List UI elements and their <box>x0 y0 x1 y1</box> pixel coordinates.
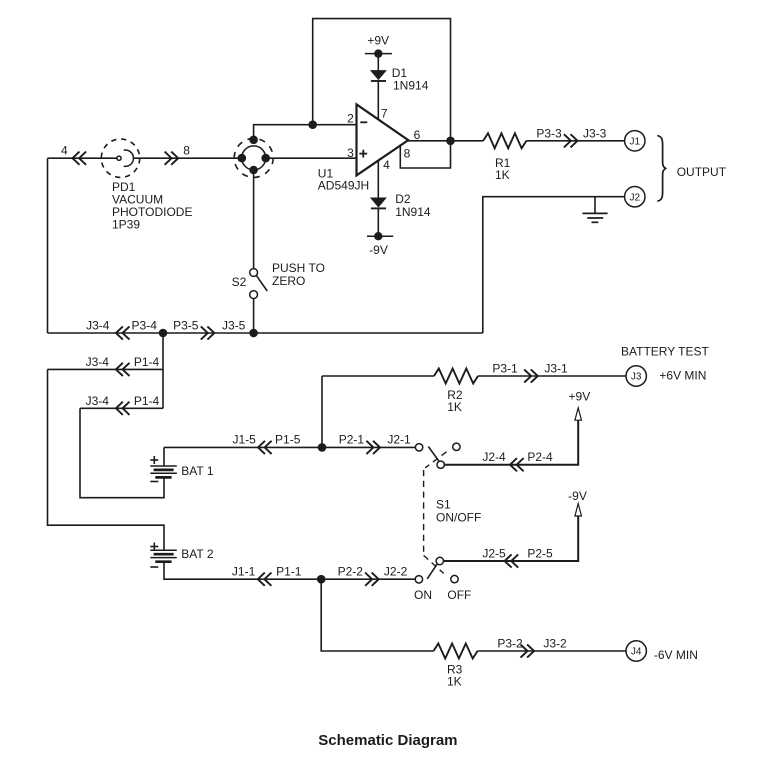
svg-text:7: 7 <box>381 107 388 121</box>
resistor R3 <box>434 644 478 659</box>
svg-text:J3-3: J3-3 <box>583 126 607 140</box>
chevron P2-2/J2-2 <box>365 573 379 586</box>
chevron upper return <box>116 363 130 376</box>
jack J1 (output) <box>625 131 645 151</box>
label U1 AD549JH <box>318 167 369 193</box>
power arrow +9V (battery output) <box>569 390 591 421</box>
wire D1 cathode to op-amp pin 7 <box>377 81 379 119</box>
wire feedback loop (output node to inverting input, top rectangle) <box>313 19 451 141</box>
svg-text:P1-4: P1-4 <box>134 355 160 369</box>
node S2 junction on ground bus <box>249 329 258 338</box>
jack J2 (output ground) <box>625 187 645 207</box>
label R3 1K <box>447 663 463 689</box>
wire R1 to output jack J1 <box>526 140 624 142</box>
ground symbol (output return) <box>582 197 607 223</box>
svg-text:+6V MIN: +6V MIN <box>659 369 706 383</box>
node battery-test tap (lower) <box>317 575 326 584</box>
svg-text:2: 2 <box>347 112 354 126</box>
svg-text:J2-5: J2-5 <box>482 547 506 561</box>
chevron connector on PD1 right lead <box>165 152 179 165</box>
switch S1 upper pole (ON contact J2-1) <box>415 443 460 468</box>
svg-text:J3-4: J3-4 <box>86 355 110 369</box>
mechanical link S1 (dashed) <box>424 452 447 574</box>
wire R2 to jack J3 <box>478 375 626 377</box>
svg-text:P2-1: P2-1 <box>339 433 365 447</box>
wire J1-5 rail (BAT1 to switch S1 upper) <box>164 446 415 448</box>
guarded input connector (guard ring with four contacts) <box>234 136 273 178</box>
svg-text:J3-5: J3-5 <box>222 319 246 333</box>
svg-text:P3-4: P3-4 <box>132 319 158 333</box>
photodiode PD1 (vacuum photodiode, dashed envelope) <box>101 139 139 177</box>
svg-text:J2-1: J2-1 <box>387 433 411 447</box>
op-amp U1 AD549JH (triangle) <box>357 104 409 175</box>
wire guard top to op-amp inverting input (pin 2) <box>254 125 357 140</box>
wire ground bus (bottom of input loop) <box>48 332 483 334</box>
wire guard bottom to switch S2 <box>253 170 255 269</box>
wire op-amp output (pin 6) to R1 <box>408 140 483 142</box>
svg-text:8: 8 <box>404 147 411 161</box>
chevron P3-3 to J3-3 <box>564 134 578 147</box>
chevron P3-2/J3-2 <box>521 644 535 657</box>
svg-text:J3: J3 <box>631 372 642 383</box>
svg-text:J1-5: J1-5 <box>233 433 257 447</box>
node output junction <box>446 137 455 146</box>
jack J3 (battery test +) <box>626 366 646 386</box>
svg-text:4: 4 <box>383 158 390 172</box>
svg-text:P3-2: P3-2 <box>497 637 523 651</box>
wire left rail to BAT2 plus <box>48 369 165 550</box>
label PD1 VACUUM PHOTODIODE 1P39 <box>112 180 192 232</box>
svg-text:1N914: 1N914 <box>395 205 431 219</box>
wire guard ring to op-amp non-inverting input (pin 3) <box>266 157 357 159</box>
power terminal -9V (op-amp supply) <box>367 232 393 257</box>
svg-text:BAT 1: BAT 1 <box>181 464 214 478</box>
chevron P2-1/J2-1 <box>366 441 380 454</box>
wire input from PD1 anode lead (left) <box>48 157 118 159</box>
node feedback junction at inverting input <box>308 120 317 129</box>
wire battery common drop (from ground bus node) <box>162 333 164 408</box>
svg-text:P1-4: P1-4 <box>134 394 160 408</box>
svg-text:BAT 2: BAT 2 <box>181 547 214 561</box>
chevron lower return <box>116 402 130 415</box>
wire D2 cathode to -9V <box>377 208 379 236</box>
svg-text:1N914: 1N914 <box>393 79 429 93</box>
chevron P3-5 to J3-5 <box>201 326 215 339</box>
power arrow -9V (battery output) <box>568 489 587 516</box>
svg-text:-9V: -9V <box>369 243 388 257</box>
svg-text:OUTPUT: OUTPUT <box>677 165 727 179</box>
svg-text:ON: ON <box>414 588 432 602</box>
wire battery test tap up to R2 <box>321 376 323 447</box>
svg-text:OFF: OFF <box>447 588 471 602</box>
wire BAT2 minus to J1-1 rail <box>164 562 415 580</box>
wire PD1 cathode to guard ring <box>133 157 243 159</box>
svg-text:1K: 1K <box>447 400 462 414</box>
svg-text:P2-4: P2-4 <box>527 450 553 464</box>
svg-text:J1-1: J1-1 <box>232 565 256 579</box>
jack J4 (battery test -) <box>626 641 646 661</box>
svg-text:D2: D2 <box>395 192 411 206</box>
battery BAT 1 <box>150 465 177 467</box>
resistor R1 <box>483 133 526 148</box>
switch S2 push to zero <box>250 269 268 299</box>
svg-text:J3-4: J3-4 <box>86 394 110 408</box>
wire S2 to ground bus <box>253 299 255 334</box>
svg-text:1K: 1K <box>447 675 462 689</box>
node battery-test tap (upper) <box>318 443 327 452</box>
svg-text:P1-1: P1-1 <box>276 565 302 579</box>
chevron connector on PD1 left lead <box>73 152 87 165</box>
chevron J1-5/P1-5 <box>258 441 272 454</box>
svg-text:P3-5: P3-5 <box>173 319 199 333</box>
label R1 1K <box>495 156 511 182</box>
svg-text:J2-4: J2-4 <box>482 450 506 464</box>
chevron J1-1/P1-1 <box>258 573 272 586</box>
svg-text:J1: J1 <box>630 136 641 147</box>
svg-text:J2-2: J2-2 <box>384 565 408 579</box>
inverting input minus sign <box>360 121 367 123</box>
svg-text:P3-3: P3-3 <box>536 126 562 140</box>
wire lower return to BAT1 minus <box>80 408 164 497</box>
wire R3 to jack J4 <box>478 650 626 652</box>
wire J3-4/P1-4 return (upper) <box>48 368 164 370</box>
wire op-amp pin 4 to D2 anode <box>377 161 379 198</box>
label PUSH TO ZERO <box>272 261 325 288</box>
svg-text:P2-5: P2-5 <box>527 547 553 561</box>
svg-text:P1-5: P1-5 <box>275 433 301 447</box>
svg-text:P3-1: P3-1 <box>492 362 518 376</box>
wire left input rail (PD1 lead 4 down to ground bus) <box>47 158 49 333</box>
svg-text:+9V: +9V <box>367 33 389 47</box>
wire R2 feed <box>322 375 434 377</box>
wire +9V to D1 anode <box>377 54 379 71</box>
svg-text:-6V MIN: -6V MIN <box>654 648 698 662</box>
switch S1 lower pole (ON contact J2-2) <box>415 557 458 583</box>
wire S1 upper pole to +9V arrow <box>444 420 578 465</box>
svg-text:J3-1: J3-1 <box>544 362 568 376</box>
wire battery test tap down to R3 <box>321 579 433 651</box>
power terminal +9V (op-amp supply) <box>365 33 392 57</box>
diode D2 1N914 <box>371 198 386 207</box>
svg-text:Schematic Diagram: Schematic Diagram <box>318 732 457 749</box>
svg-text:J4: J4 <box>631 647 642 658</box>
label D1 1N914 <box>392 66 429 93</box>
wire op-amp pin 8 tied to output <box>400 141 450 168</box>
svg-text:P2-2: P2-2 <box>338 565 364 579</box>
resistor R2 <box>434 369 478 384</box>
non-inverting input plus sign <box>359 153 367 155</box>
svg-text:1K: 1K <box>495 168 510 182</box>
svg-text:4: 4 <box>61 144 68 158</box>
svg-text:S2: S2 <box>232 275 247 289</box>
svg-text:J3-4: J3-4 <box>86 319 110 333</box>
svg-text:ON/OFF: ON/OFF <box>436 510 481 524</box>
diode D1 1N914 <box>371 71 386 80</box>
chevron J2-4/P2-4 <box>510 458 524 471</box>
battery BAT 2 <box>150 549 177 551</box>
chevron J2-5/P2-5 <box>505 554 519 567</box>
label R2 1K <box>447 388 463 414</box>
svg-text:1P39: 1P39 <box>112 218 140 232</box>
svg-text:AD549JH: AD549JH <box>318 179 369 193</box>
svg-text:8: 8 <box>183 144 190 158</box>
svg-text:BATTERY TEST: BATTERY TEST <box>621 345 709 359</box>
wire J3-4/P1-4 return (lower) <box>80 407 163 409</box>
chevron P3-1/J3-1 <box>524 369 538 382</box>
wire S1 lower pole to -9V arrow <box>444 516 579 561</box>
chevron P3-4 to J3-4 <box>116 326 130 339</box>
svg-text:+9V: +9V <box>569 390 591 404</box>
wire BAT1 plus up to J1-5 rail <box>163 447 165 466</box>
svg-text:ZERO: ZERO <box>272 274 305 288</box>
svg-text:J2: J2 <box>630 192 641 203</box>
brace output group <box>657 136 665 202</box>
svg-text:-9V: -9V <box>568 489 587 503</box>
svg-text:J3-2: J3-2 <box>543 637 567 651</box>
wire ground bus up to output ground (J2) <box>483 197 625 333</box>
label S1 ON/OFF <box>436 498 481 525</box>
label D2 1N914 <box>395 192 431 219</box>
node ground bus to battery common <box>159 329 168 338</box>
svg-text:3: 3 <box>347 146 354 160</box>
